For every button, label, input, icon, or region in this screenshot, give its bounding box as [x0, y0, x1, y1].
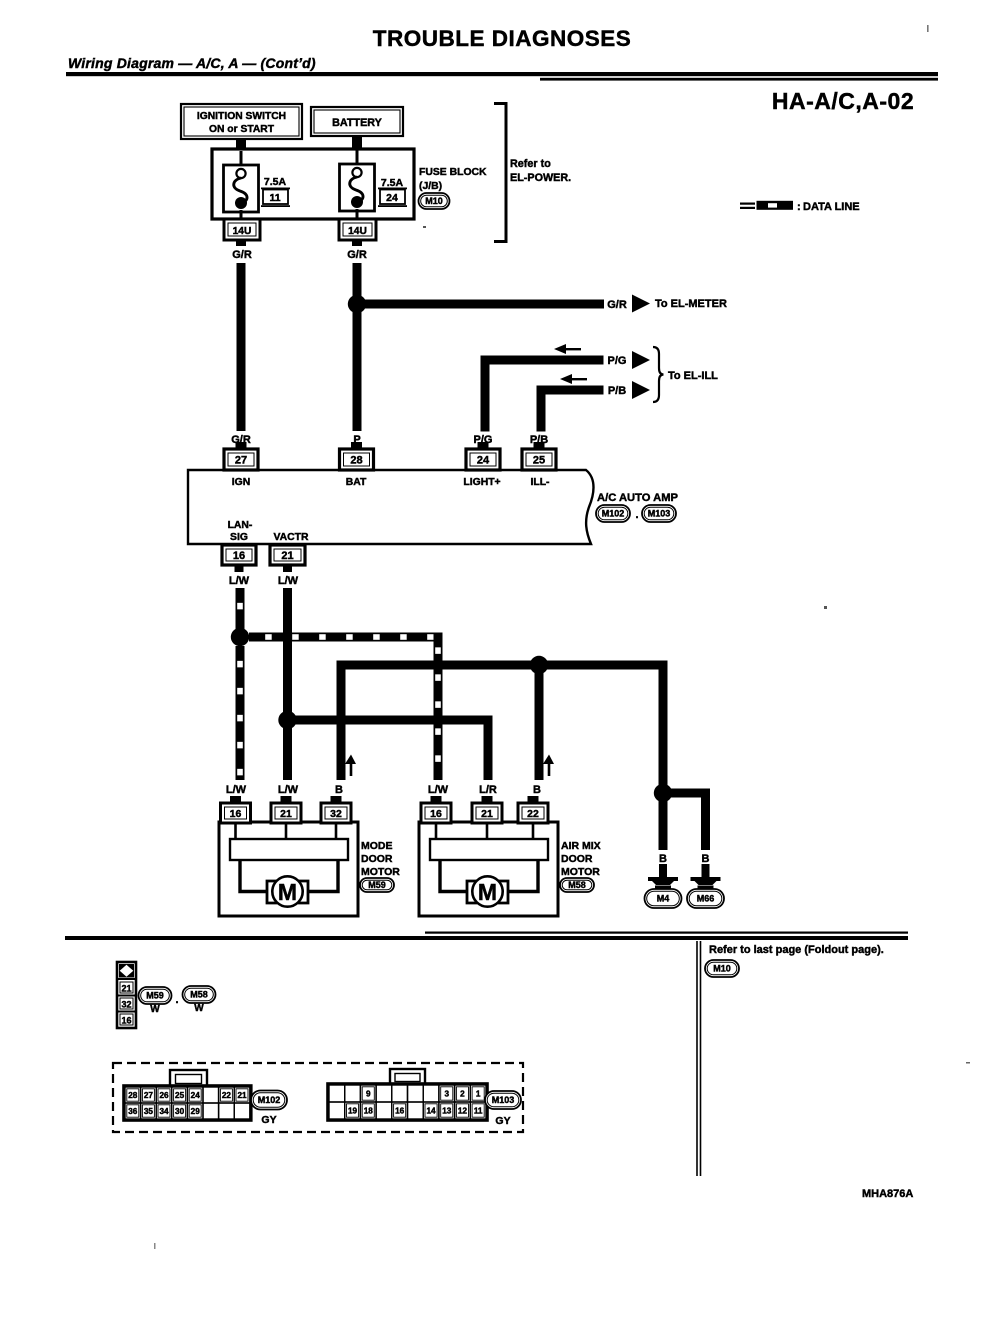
- svg-text:To EL-ILL: To EL-ILL: [668, 370, 718, 382]
- ground symbol: [648, 877, 678, 881]
- junction B ground: [654, 784, 672, 802]
- fuse 7.5A no.11: [224, 151, 259, 219]
- connector M103 pin grid: [328, 1084, 488, 1121]
- connector M103 label: [485, 1091, 521, 1109]
- svg-text:M58: M58: [568, 880, 586, 890]
- svg-text:M10: M10: [425, 196, 443, 206]
- svg-text:11: 11: [474, 1107, 483, 1116]
- svg-text:A/C AUTO AMP: A/C AUTO AMP: [597, 492, 679, 504]
- svg-text:M58: M58: [190, 990, 208, 1000]
- svg-text:MODE: MODE: [361, 840, 393, 852]
- refer to EL-POWER bracket: [494, 104, 506, 242]
- svg-text:L/W: L/W: [226, 784, 247, 796]
- svg-text:19: 19: [348, 1107, 358, 1116]
- svg-text:M102: M102: [258, 1095, 281, 1105]
- wire G/R battery feed upper: [353, 263, 362, 304]
- pin 32: [331, 796, 342, 804]
- svg-text:14U: 14U: [233, 226, 252, 237]
- connector M10 foldout: [705, 960, 739, 977]
- svg-text:MHA876A: MHA876A: [862, 1188, 913, 1200]
- wire P/B vertical: [537, 386, 546, 432]
- wire LAN-SIG dashed branch horizontal: [249, 633, 443, 642]
- stray mark: [154, 1243, 156, 1249]
- svg-text:GY: GY: [261, 1114, 276, 1126]
- svg-text:M103: M103: [648, 509, 671, 519]
- pin 24: [478, 442, 489, 450]
- fuse block J/B box: [212, 149, 414, 219]
- wire LAN-SIG dashed lower: [236, 646, 245, 780]
- brace To EL-ILL: [653, 347, 664, 402]
- svg-text:B: B: [659, 853, 667, 865]
- svg-text:SIG: SIG: [230, 532, 248, 543]
- svg-text:M10: M10: [713, 964, 731, 974]
- motor symbol M: [267, 881, 277, 903]
- svg-text:LIGHT+: LIGHT+: [463, 477, 500, 488]
- wire LAN-SIG dashed branch vertical: [434, 633, 443, 781]
- svg-text:26: 26: [159, 1091, 169, 1100]
- wire stub below 14U left: [236, 240, 246, 246]
- fuse 7.5A no.24: [340, 150, 375, 218]
- svg-text:11: 11: [269, 192, 280, 204]
- svg-text:M59: M59: [368, 880, 386, 890]
- svg-text:P/G: P/G: [608, 355, 627, 367]
- pin 16: [431, 796, 442, 804]
- svg-text:12: 12: [458, 1107, 468, 1116]
- svg-text:29: 29: [191, 1107, 201, 1116]
- strip pin 32: [120, 998, 133, 1009]
- wire P battery feed lower: [353, 304, 362, 431]
- svg-text:22: 22: [527, 808, 539, 820]
- svg-text:21: 21: [280, 808, 292, 820]
- svg-text:25: 25: [533, 454, 545, 466]
- svg-text:B: B: [533, 784, 541, 796]
- junction VACTR: [278, 711, 296, 729]
- svg-text:M103: M103: [492, 1095, 515, 1105]
- svg-text:.: .: [635, 509, 638, 521]
- wire P/G horizontal: [481, 356, 604, 365]
- connector M10: [419, 193, 450, 209]
- svg-text:16: 16: [121, 1016, 131, 1026]
- motor drive bar: [430, 839, 548, 860]
- svg-text:22: 22: [222, 1091, 232, 1100]
- svg-text:G/R: G/R: [347, 249, 367, 261]
- ground symbol: [691, 877, 721, 881]
- wire B ground branch horizontal: [663, 789, 710, 798]
- svg-text:BAT: BAT: [346, 477, 367, 488]
- svg-text:IGNITION SWITCH: IGNITION SWITCH: [197, 111, 286, 122]
- svg-text:ILL-: ILL-: [530, 477, 550, 488]
- wire B bus corner vertical: [659, 661, 668, 798]
- svg-text:TROUBLE DIAGNOSES: TROUBLE DIAGNOSES: [373, 26, 632, 51]
- pin 16: [230, 796, 241, 804]
- svg-text:DOOR: DOOR: [361, 853, 393, 865]
- pin 21: [281, 796, 292, 804]
- svg-text:M59: M59: [146, 991, 164, 1001]
- strip pin 16: [120, 1014, 133, 1025]
- svg-text:27: 27: [235, 454, 247, 466]
- direction arrow on P/B: [568, 378, 587, 380]
- svg-text:1: 1: [476, 1090, 481, 1099]
- svg-text:W: W: [194, 1003, 204, 1014]
- pin 27: [236, 442, 247, 450]
- wire G/R ignition feed: [237, 263, 246, 431]
- svg-text:EL-POWER.: EL-POWER.: [510, 172, 571, 184]
- svg-text:21: 21: [481, 808, 493, 820]
- svg-text:AIR MIX: AIR MIX: [561, 840, 601, 852]
- connector M59 face label: [139, 987, 172, 1004]
- svg-text:16: 16: [395, 1107, 405, 1116]
- svg-text:14U: 14U: [348, 226, 367, 237]
- svg-text:L/W: L/W: [428, 784, 449, 796]
- svg-text:DATA LINE: DATA LINE: [803, 201, 860, 213]
- motor connector face strip: [117, 962, 136, 1028]
- wire B bus horizontal: [337, 661, 668, 670]
- svg-text:36: 36: [128, 1107, 138, 1116]
- connector view dashed box: [113, 1063, 523, 1132]
- continuation arrow on B wire left: [350, 760, 353, 776]
- wire VACTR vertical lower: [283, 720, 292, 780]
- svg-text:9: 9: [366, 1090, 371, 1099]
- ground connector M4: [645, 889, 682, 908]
- connector M102 label: [251, 1091, 287, 1110]
- svg-text:16: 16: [430, 808, 442, 820]
- svg-text:24: 24: [386, 192, 398, 204]
- mode door motor M59: [219, 822, 358, 916]
- A/C auto amp box: [188, 470, 594, 544]
- arrow to EL-METER: [632, 295, 650, 313]
- svg-text:25: 25: [175, 1091, 185, 1100]
- pin 22: [528, 796, 539, 804]
- svg-text:P/B: P/B: [608, 385, 626, 397]
- motor symbol M: [467, 881, 477, 903]
- svg-text:B: B: [335, 784, 343, 796]
- arrow P/B to EL-ILL: [632, 381, 650, 399]
- svg-text:18: 18: [364, 1107, 374, 1116]
- svg-text:LAN-: LAN-: [228, 520, 253, 531]
- svg-text:M4: M4: [657, 894, 670, 904]
- strip pin 21: [120, 982, 133, 993]
- svg-text:M102: M102: [602, 509, 625, 519]
- wire battery to fuse block: [352, 136, 362, 150]
- svg-text:MOTOR: MOTOR: [361, 866, 400, 878]
- svg-text:L/W: L/W: [229, 575, 250, 587]
- wire B ground left vertical: [659, 797, 668, 850]
- svg-text:(J/B): (J/B): [419, 181, 442, 192]
- svg-text:BATTERY: BATTERY: [332, 117, 383, 129]
- svg-text:32: 32: [121, 1000, 131, 1010]
- column divider: [696, 941, 698, 1176]
- junction battery feed: [348, 295, 366, 313]
- svg-text:27: 27: [144, 1091, 154, 1100]
- connector M102 keying tab: [170, 1070, 207, 1088]
- svg-text:ON or START: ON or START: [209, 124, 275, 135]
- svg-text:3: 3: [444, 1090, 449, 1099]
- wire VACTR branch vertical: [484, 716, 493, 781]
- svg-text:16: 16: [233, 550, 245, 562]
- svg-text:FUSE BLOCK: FUSE BLOCK: [419, 167, 487, 178]
- pin 21: [270, 545, 305, 565]
- connector 14U right: [339, 219, 376, 240]
- wire LAN-SIG dashed upper: [236, 588, 245, 630]
- svg-text:14: 14: [426, 1107, 436, 1116]
- svg-text:L/W: L/W: [278, 575, 299, 587]
- battery box: [311, 107, 403, 136]
- svg-text:B: B: [702, 853, 710, 865]
- svg-text:28: 28: [350, 454, 362, 466]
- pin 25: [534, 442, 545, 450]
- continuation arrow on B wire right: [548, 760, 551, 776]
- motor drive bar: [230, 839, 348, 860]
- connector M59: [360, 878, 394, 892]
- junction B bus: [530, 656, 548, 674]
- svg-text:30: 30: [175, 1107, 185, 1116]
- svg-text:Wiring Diagram — A/C, A — (Con: Wiring Diagram — A/C, A — (Contʼd): [68, 55, 316, 71]
- svg-text:2: 2: [460, 1090, 465, 1099]
- connector M102 pin grid: [124, 1086, 252, 1121]
- wire P/B horizontal: [537, 386, 604, 395]
- separator rule: [65, 936, 908, 940]
- svg-text:7.5A: 7.5A: [264, 176, 287, 188]
- svg-text:VACTR: VACTR: [273, 532, 309, 543]
- arrow P/G to EL-ILL: [632, 351, 650, 369]
- svg-text:MOTOR: MOTOR: [561, 866, 600, 878]
- strip arrow cell: [119, 964, 134, 978]
- svg-text:HA-A/C,A-02: HA-A/C,A-02: [772, 88, 914, 114]
- junction LAN: [231, 628, 249, 646]
- svg-text:16: 16: [230, 808, 242, 820]
- connector M58 face label: [183, 986, 216, 1003]
- svg-text:L/W: L/W: [278, 784, 299, 796]
- connector M58: [560, 878, 594, 892]
- wire VACTR vertical upper: [283, 588, 292, 712]
- svg-text:35: 35: [144, 1107, 154, 1116]
- connector 14U left: [224, 219, 260, 240]
- svg-text:28: 28: [128, 1091, 138, 1100]
- svg-text:21: 21: [121, 984, 131, 994]
- ground connector M66: [687, 889, 724, 908]
- svg-text:21: 21: [281, 550, 293, 562]
- connector M103 keying tab: [390, 1069, 425, 1086]
- wire P/G vertical: [481, 356, 490, 432]
- svg-text:To EL-METER: To EL-METER: [655, 298, 727, 310]
- header rule: [66, 72, 938, 76]
- pin 21: [482, 796, 493, 804]
- svg-text:L/R: L/R: [479, 784, 497, 796]
- direction arrow on P/G: [562, 348, 581, 350]
- connector M103: [642, 505, 676, 522]
- wire B right motor vertical: [535, 665, 544, 780]
- ignition switch box: [181, 104, 302, 139]
- svg-text:G/R: G/R: [232, 249, 252, 261]
- wire VACTR branch horizontal: [288, 716, 493, 725]
- svg-text:34: 34: [159, 1107, 169, 1116]
- wire branch to EL-METER: [357, 300, 604, 309]
- pin 28: [351, 442, 362, 450]
- wire ignition switch to fuse block: [236, 139, 246, 150]
- connector M102: [596, 505, 630, 522]
- svg-text::: :: [797, 201, 801, 213]
- air mix door motor M58: [419, 822, 558, 916]
- svg-text:M66: M66: [697, 894, 715, 904]
- svg-text:Refer to last page (Foldout pa: Refer to last page (Foldout page).: [709, 944, 884, 956]
- pin 16: [222, 545, 256, 565]
- svg-text:W: W: [150, 1004, 160, 1015]
- stray scan mark: [927, 25, 929, 32]
- svg-text:32: 32: [330, 808, 342, 820]
- wire B left motor vertical: [337, 661, 346, 781]
- svg-text:24: 24: [191, 1091, 201, 1100]
- wire B ground right vertical: [701, 789, 710, 851]
- svg-text:24: 24: [477, 454, 490, 466]
- svg-text:13: 13: [442, 1107, 452, 1116]
- svg-text:GY: GY: [495, 1115, 510, 1127]
- svg-text:7.5A: 7.5A: [381, 177, 404, 189]
- svg-text:M: M: [478, 879, 497, 905]
- data line legend symbol: [740, 203, 755, 205]
- svg-text:21: 21: [237, 1091, 247, 1100]
- svg-text:Refer to: Refer to: [510, 158, 551, 170]
- svg-text:DOOR: DOOR: [561, 853, 593, 865]
- svg-text:.: .: [175, 994, 178, 1006]
- svg-text:G/R: G/R: [607, 299, 627, 311]
- svg-text:IGN: IGN: [232, 477, 250, 488]
- svg-text:M: M: [278, 879, 297, 905]
- wire stub below 14U right: [352, 240, 362, 246]
